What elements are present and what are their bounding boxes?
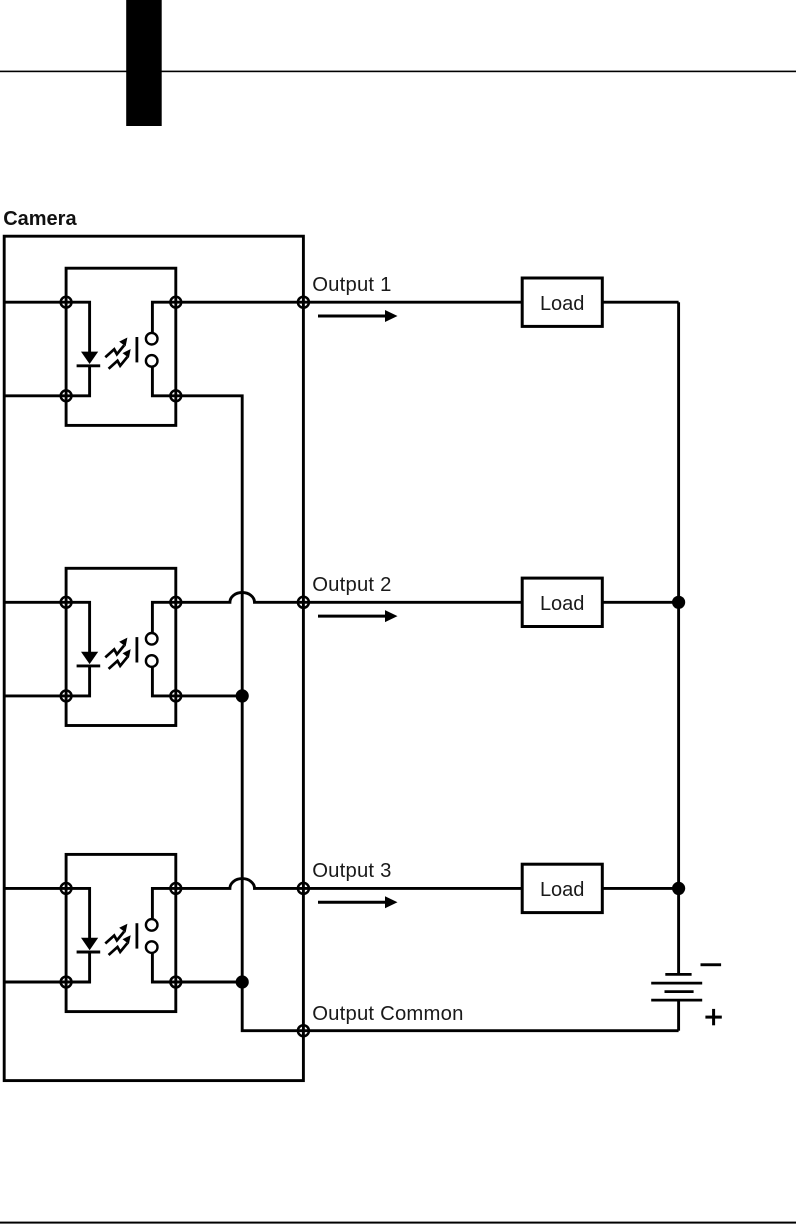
junction: U3 pin3 to common bus [176, 975, 249, 988]
U2 light emission arrows [105, 638, 130, 669]
LED D1 (emitter diode) [77, 352, 101, 366]
wire: Output 2 from U2 to Load 2 (hop over common bus) [176, 593, 522, 603]
U3 internal wire: output lower lead [152, 953, 175, 982]
camera enclosure box [4, 236, 303, 1080]
U2 photodetector bar [135, 637, 138, 662]
wire: Load 2 to supply bus [602, 601, 678, 604]
U3 internal wire: anode lead [66, 888, 90, 938]
Output 1 terminal [298, 297, 309, 308]
U2 internal wire: anode lead [66, 602, 90, 652]
wire: camera pins to U2 cathode row [4, 694, 66, 697]
svg-text:Camera: Camera [3, 208, 77, 230]
signal direction arrow 3 [318, 896, 398, 908]
U3 terminal pin 2 [61, 977, 72, 988]
Output 3 terminal [298, 883, 309, 894]
junction: U2 pin3 to common bus [176, 689, 249, 702]
Output 2 terminal [298, 597, 309, 608]
LED D2 (emitter diode) [77, 652, 101, 666]
signal direction arrow 1 [318, 310, 398, 322]
U3 terminal pin 1 [61, 883, 72, 894]
wire: battery positive to Output Common [677, 1000, 680, 1031]
wire: Output 1 from U1 to Load 1 [176, 301, 522, 304]
load resistor box Load 1 [522, 278, 602, 326]
wire: Load 1 to supply bus [602, 301, 678, 304]
U2 internal wire: cathode lead [66, 666, 90, 696]
U1 internal wire: anode lead [66, 302, 90, 352]
U2 internal wire: output lower lead [152, 667, 175, 696]
U3 internal wire: cathode lead [66, 952, 90, 982]
U1 terminal pin 1 [61, 297, 72, 308]
U1 internal wire: cathode lead [66, 366, 90, 396]
optocoupler U3 body [66, 854, 176, 1011]
svg-text:Load: Load [540, 879, 585, 901]
battery plus label [705, 1009, 721, 1025]
signal direction arrow 2 [318, 610, 398, 622]
svg-text:Load: Load [540, 593, 585, 615]
wire: Output 3 from U3 to Load 3 (hop over common bus) [176, 879, 522, 889]
U1 internal wire: output lower lead [152, 367, 175, 396]
wire: camera pins to U2 anode row [4, 601, 66, 604]
U3 photodetector bar [135, 923, 138, 948]
redacted header block [126, 0, 162, 126]
U2 terminal pin 3 [170, 691, 181, 702]
wire: camera pins to U1 anode row [4, 301, 66, 304]
U1 light emission arrows [105, 338, 130, 369]
wire: supply bus vertical [677, 302, 680, 974]
wire: camera pins to U1 cathode row [4, 394, 66, 397]
U3 relay contact circle lower [146, 941, 158, 953]
wire: camera pins to U3 anode row [4, 887, 66, 890]
U1 relay contact circle lower [146, 355, 158, 367]
U1 terminal pin 2 [61, 390, 72, 401]
svg-text:Output 2: Output 2 [312, 574, 391, 596]
page bottom rule [0, 1222, 796, 1224]
U1 relay contact circle upper [146, 333, 158, 345]
U3 terminal pin 4 [170, 883, 181, 894]
U2 terminal pin 4 [170, 597, 181, 608]
junction: Load 3 on supply bus [672, 882, 685, 895]
page top rule [0, 71, 796, 73]
U3 terminal pin 3 [170, 977, 181, 988]
battery minus label [701, 963, 722, 966]
load resistor box Load 3 [522, 864, 602, 912]
wire: output common bus [176, 396, 304, 1031]
optocoupler U2 body [66, 568, 176, 725]
LED D3 (emitter diode) [77, 938, 101, 952]
load resistor box Load 2 [522, 578, 602, 626]
U1 terminal pin 3 [170, 390, 181, 401]
U1 photodetector bar [135, 337, 138, 362]
U3 relay contact circle upper [146, 919, 158, 931]
U2 terminal pin 1 [61, 597, 72, 608]
junction: Load 2 on supply bus [672, 596, 685, 609]
U2 internal wire: output upper lead [152, 602, 175, 633]
U2 relay contact circle upper [146, 633, 158, 645]
svg-text:Output 1: Output 1 [312, 274, 391, 296]
U3 light emission arrows [105, 924, 130, 955]
optocoupler U1 body [66, 268, 176, 425]
U1 internal wire: output upper lead [152, 302, 175, 333]
U2 terminal pin 2 [61, 691, 72, 702]
svg-text:Load: Load [540, 293, 585, 315]
svg-text:Output 3: Output 3 [312, 860, 391, 882]
U2 relay contact circle lower [146, 655, 158, 667]
U1 terminal pin 4 [170, 297, 181, 308]
U3 internal wire: output upper lead [152, 888, 175, 919]
svg-text:Output Common: Output Common [312, 1003, 463, 1025]
wire: Output Common return [303, 1029, 678, 1032]
wire: camera pins to U3 cathode row [4, 981, 66, 984]
battery BT1 [651, 974, 702, 1000]
Output Common terminal [298, 1025, 309, 1036]
wire: Load 3 to supply bus [602, 887, 678, 890]
